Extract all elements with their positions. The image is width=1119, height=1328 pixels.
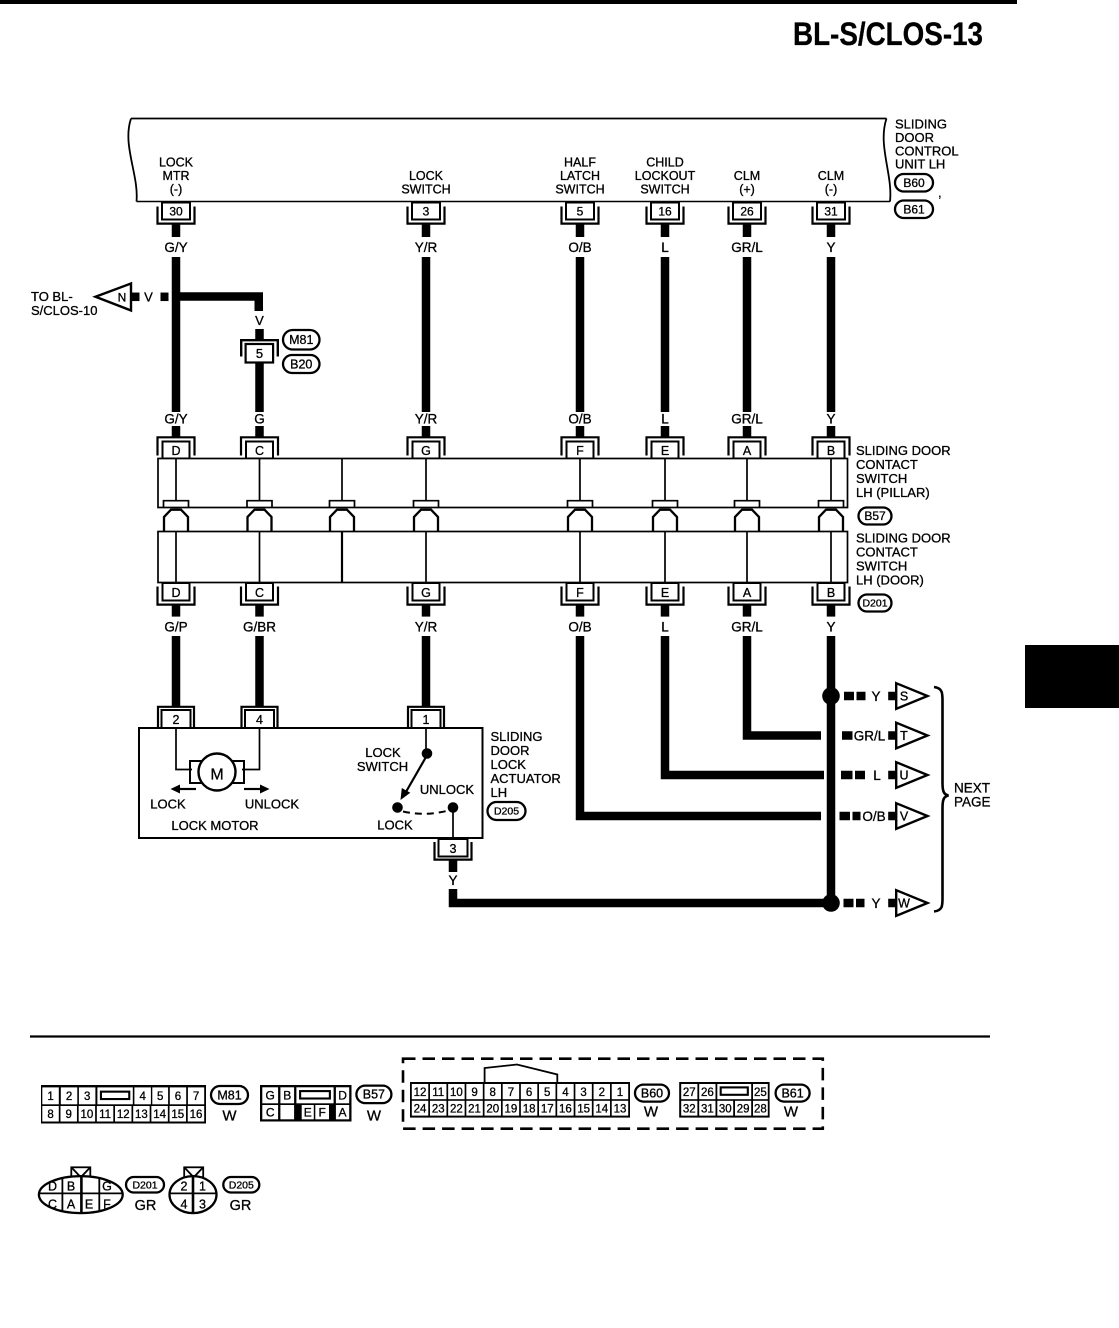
svg-text:9: 9 <box>66 1109 72 1121</box>
terminal 31 on control unit <box>813 203 850 238</box>
actuator label <box>491 729 561 800</box>
wire dashes and label Y (arrow S) <box>844 689 896 704</box>
connector B60 oval (pinout) <box>635 1085 669 1121</box>
terminal C on contact switch door side <box>241 583 278 617</box>
svg-text:M81: M81 <box>217 1088 241 1102</box>
pin label HALF LATCH SWITCH <box>555 156 604 197</box>
svg-text:PAGE: PAGE <box>954 795 991 810</box>
connector B61 oval <box>895 201 933 219</box>
wire label Y/R (row3) <box>415 620 438 635</box>
svg-text:8: 8 <box>47 1109 53 1121</box>
wire label Y (row3) <box>826 620 835 635</box>
svg-text:17: 17 <box>541 1103 554 1115</box>
svg-text:21: 21 <box>468 1103 481 1115</box>
connector B61 oval (pinout) <box>776 1085 810 1121</box>
svg-text:2: 2 <box>181 1180 188 1194</box>
wire label Y/R (lower) <box>415 412 438 427</box>
label UNLOCK (motor right) <box>245 797 300 812</box>
svg-text:SWITCH: SWITCH <box>640 183 689 197</box>
svg-text:19: 19 <box>505 1103 518 1115</box>
svg-text:15: 15 <box>577 1103 590 1115</box>
wire G/BR to actuator terminal 4 <box>255 636 264 707</box>
svg-text:2: 2 <box>599 1087 605 1099</box>
svg-text:N: N <box>118 290 127 304</box>
wire label O/B (row3) <box>568 620 591 635</box>
svg-text:,: , <box>938 185 942 200</box>
wire O/B vertical <box>576 257 585 412</box>
svg-text:T: T <box>900 729 908 743</box>
svg-text:LH (PILLAR): LH (PILLAR) <box>856 485 930 500</box>
svg-text:L: L <box>661 240 669 255</box>
svg-text:26: 26 <box>740 205 754 219</box>
arrow T to next page <box>896 723 927 749</box>
svg-text:Y: Y <box>826 412 835 427</box>
terminal D on contact switch pillar side <box>158 426 195 459</box>
connector B20 oval <box>283 355 320 373</box>
svg-text:G: G <box>102 1180 112 1194</box>
svg-text:V: V <box>255 313 264 328</box>
svg-text:(-): (-) <box>825 183 838 197</box>
svg-text:B: B <box>827 444 835 458</box>
wire label GR/L <box>731 240 763 255</box>
svg-text:3: 3 <box>199 1198 206 1212</box>
lock switch SW1 <box>392 728 458 838</box>
svg-text:27: 27 <box>683 1087 696 1099</box>
svg-text:UNLOCK: UNLOCK <box>245 797 300 812</box>
svg-text:11: 11 <box>432 1087 444 1099</box>
svg-text:O/B: O/B <box>568 412 591 427</box>
svg-text:LOCK MOTOR: LOCK MOTOR <box>171 818 258 833</box>
svg-text:1: 1 <box>423 713 430 727</box>
label LOCK (switch) <box>377 818 413 833</box>
svg-text:W: W <box>222 1108 237 1125</box>
svg-text:11: 11 <box>99 1109 111 1121</box>
wire label G/Y (lower) <box>164 412 187 427</box>
svg-text:Y: Y <box>448 873 457 888</box>
svg-text:W: W <box>784 1104 799 1121</box>
svg-text:4: 4 <box>139 1091 146 1103</box>
svg-text:SLIDING DOOR: SLIDING DOOR <box>856 443 951 458</box>
terminal E on contact switch door side <box>647 583 684 617</box>
svg-text:A: A <box>743 444 752 458</box>
svg-text:3: 3 <box>423 205 430 219</box>
svg-text:22: 22 <box>450 1103 463 1115</box>
svg-text:E: E <box>661 444 669 458</box>
arrow N to BL-S/CLOS-10 <box>31 284 131 319</box>
svg-text:B57: B57 <box>363 1088 385 1102</box>
svg-text:CONTACT: CONTACT <box>856 545 918 560</box>
svg-text:LOCK: LOCK <box>377 818 413 833</box>
svg-text:LATCH: LATCH <box>560 169 600 183</box>
terminal 26 on control unit <box>729 203 766 238</box>
wire GR/L vertical <box>743 257 752 412</box>
svg-text:GR: GR <box>135 1198 157 1214</box>
svg-text:F: F <box>576 444 584 458</box>
svg-text:6: 6 <box>526 1087 532 1099</box>
svg-text:5: 5 <box>577 205 584 219</box>
connector D205 oval <box>488 802 526 820</box>
junction dot (Y / arrow W) <box>822 894 840 912</box>
svg-text:Y: Y <box>826 620 835 635</box>
label LOCK (motor left) <box>150 797 186 812</box>
control unit label <box>895 117 959 172</box>
svg-text:G/Y: G/Y <box>164 240 187 255</box>
connector M81 oval <box>283 330 320 350</box>
wire label Y (lower) <box>826 412 835 427</box>
svg-text:1: 1 <box>47 1091 53 1103</box>
svg-text:V: V <box>900 810 909 824</box>
terminal 1 on actuator <box>408 707 444 728</box>
svg-text:16: 16 <box>190 1109 203 1121</box>
connector D205 pinout <box>169 1167 217 1213</box>
wire label G/P <box>164 620 187 635</box>
wire Y from actuator to junction W <box>453 889 827 903</box>
svg-text:10: 10 <box>450 1087 463 1099</box>
svg-text:15: 15 <box>171 1109 184 1121</box>
svg-text:B20: B20 <box>290 357 312 371</box>
contact pins between connectors <box>164 510 843 532</box>
lock motor M1 <box>176 728 260 791</box>
svg-text:23: 23 <box>432 1103 445 1115</box>
terminal F on contact switch door side <box>562 583 599 617</box>
svg-text:CHILD: CHILD <box>646 156 684 170</box>
page title BL-S/CLOS-13 <box>793 16 983 52</box>
contact switch pillar label <box>856 443 951 500</box>
svg-text:G: G <box>421 444 431 458</box>
wire label L <box>661 240 669 255</box>
svg-text:14: 14 <box>595 1103 608 1115</box>
svg-text:A: A <box>67 1198 76 1212</box>
terminal A on contact switch door side <box>729 583 766 617</box>
svg-text:A: A <box>743 586 752 600</box>
svg-text:7: 7 <box>508 1087 514 1099</box>
contact switch door label <box>856 531 951 588</box>
svg-text:5: 5 <box>157 1091 163 1103</box>
connector B61 pinout <box>679 1082 769 1118</box>
unlock direction arrow (right) <box>244 785 270 794</box>
terminal A on contact switch pillar side <box>729 426 766 459</box>
arrow V to next page <box>896 803 927 829</box>
svg-text:C: C <box>255 586 264 600</box>
svg-text:5: 5 <box>256 346 263 361</box>
svg-text:F: F <box>576 586 584 600</box>
wire label Y <box>826 240 835 255</box>
svg-text:D: D <box>48 1180 57 1194</box>
wire dashes and label Y (arrow W) <box>844 896 897 911</box>
svg-text:D: D <box>171 586 180 600</box>
svg-text:8: 8 <box>490 1087 496 1099</box>
terminal F on contact switch pillar side <box>562 426 599 459</box>
terminal E on contact switch pillar side <box>647 426 684 459</box>
svg-text:GR/L: GR/L <box>731 620 763 635</box>
terminal B on contact switch door side <box>813 583 850 617</box>
wire label G/BR <box>243 620 276 635</box>
terminal 3 on control unit <box>408 203 445 238</box>
terminal G on contact switch door side <box>408 583 445 617</box>
svg-text:Y/R: Y/R <box>415 412 438 427</box>
sliding door lock actuator LH box (D205) <box>139 728 483 838</box>
svg-text:Y/R: Y/R <box>415 240 438 255</box>
svg-text:LH (DOOR): LH (DOOR) <box>856 573 924 588</box>
terminal 5 on control unit <box>562 203 599 238</box>
svg-text:13: 13 <box>135 1109 148 1121</box>
pin label CLM (-) <box>818 169 844 197</box>
svg-text:L: L <box>661 620 669 635</box>
lock direction arrow (left) <box>171 785 197 794</box>
inline connector pin 5 (M81/B20) <box>241 340 278 362</box>
svg-text:SWITCH: SWITCH <box>856 559 907 574</box>
svg-text:LOCK: LOCK <box>159 156 194 170</box>
svg-text:G/Y: G/Y <box>164 412 187 427</box>
svg-text:B61: B61 <box>903 202 925 216</box>
next page brace <box>934 687 991 912</box>
label LOCK SWITCH <box>357 745 408 774</box>
wire Y vertical <box>827 257 836 412</box>
terminal 2 on actuator <box>158 707 194 728</box>
svg-text:D205: D205 <box>494 806 519 818</box>
svg-text:B61: B61 <box>781 1086 803 1100</box>
svg-text:SWITCH: SWITCH <box>401 183 450 197</box>
terminal 3 on actuator <box>435 839 472 872</box>
wire Y vertical to junctions <box>827 636 836 903</box>
svg-text:10: 10 <box>80 1109 93 1121</box>
wire dashes and label O/B (arrow V) <box>840 809 897 824</box>
terminal G on contact switch pillar side <box>408 426 445 459</box>
wire GR/L elbow to arrow T <box>747 636 821 736</box>
svg-text:24: 24 <box>414 1103 427 1115</box>
terminal 16 on control unit <box>647 203 684 238</box>
svg-text:O/B: O/B <box>568 240 591 255</box>
svg-text:U: U <box>899 769 908 783</box>
svg-text:M: M <box>210 767 223 784</box>
wire label GR/L (lower) <box>731 412 763 427</box>
svg-text:B: B <box>283 1089 291 1103</box>
sliding door contact switch LH pillar body (B57) <box>158 459 848 508</box>
svg-text:E: E <box>304 1106 312 1120</box>
dashed harness box <box>403 1059 823 1129</box>
arrow U to next page <box>896 762 927 788</box>
wire G vertical below connector 5 <box>255 363 264 413</box>
svg-text:32: 32 <box>683 1103 696 1115</box>
svg-text:C: C <box>255 444 264 458</box>
svg-text:ACTUATOR: ACTUATOR <box>491 771 561 786</box>
svg-text:LOCK: LOCK <box>150 797 186 812</box>
wire label G/Y <box>164 240 187 255</box>
terminal C on contact switch pillar side <box>241 426 278 459</box>
svg-text:31: 31 <box>824 205 838 219</box>
connector D205 oval (pinout) <box>223 1177 259 1214</box>
svg-text:D201: D201 <box>132 1179 157 1191</box>
svg-text:9: 9 <box>471 1087 477 1099</box>
svg-text:UNLOCK: UNLOCK <box>420 782 475 797</box>
wire Y/R to actuator terminal 1 <box>422 636 431 707</box>
svg-text:GR/L: GR/L <box>731 412 763 427</box>
svg-text:G/BR: G/BR <box>243 620 276 635</box>
svg-text:4: 4 <box>256 713 263 727</box>
svg-text:D201: D201 <box>862 598 887 610</box>
svg-text:SLIDING DOOR: SLIDING DOOR <box>856 531 951 546</box>
svg-text:SWITCH: SWITCH <box>357 759 408 774</box>
svg-text:LOCKOUT: LOCKOUT <box>635 169 696 183</box>
svg-text:4: 4 <box>181 1198 188 1212</box>
pin label LOCK MTR (-) <box>159 156 194 197</box>
svg-text:1: 1 <box>617 1087 623 1099</box>
svg-text:BL-S/CLOS-13: BL-S/CLOS-13 <box>793 16 983 52</box>
svg-text:B57: B57 <box>864 509 886 523</box>
svg-text:1: 1 <box>199 1180 206 1194</box>
svg-text:G: G <box>254 412 265 427</box>
svg-text:31: 31 <box>701 1103 714 1115</box>
svg-text:16: 16 <box>658 205 672 219</box>
svg-text:14: 14 <box>153 1109 166 1121</box>
svg-text:L: L <box>661 412 669 427</box>
sliding door control unit LH box (B60/B61) <box>128 119 890 202</box>
svg-text:SWITCH: SWITCH <box>856 471 907 486</box>
svg-text:4: 4 <box>562 1087 569 1099</box>
svg-text:O/B: O/B <box>862 809 885 824</box>
connector D201 oval <box>859 595 892 612</box>
svg-text:D205: D205 <box>229 1179 254 1191</box>
node V dashes <box>132 290 169 305</box>
svg-text:D: D <box>171 444 180 458</box>
svg-text:3: 3 <box>450 842 457 856</box>
wire label G <box>254 412 265 427</box>
svg-text:W: W <box>644 1104 659 1121</box>
svg-text:F: F <box>318 1106 325 1120</box>
svg-text:(-): (-) <box>170 183 183 197</box>
wire V branch (G/Y column to connector 5) <box>176 297 259 312</box>
label LOCK MOTOR <box>171 818 258 833</box>
wire O/B elbow to arrow V <box>580 636 821 816</box>
connector B57 pinout <box>260 1085 352 1122</box>
svg-text:2: 2 <box>66 1091 72 1103</box>
svg-text:Y: Y <box>871 689 880 704</box>
svg-text:30: 30 <box>169 205 183 219</box>
sliding door contact switch LH door body (D201) <box>158 532 848 583</box>
svg-text:Y/R: Y/R <box>415 620 438 635</box>
svg-text:3: 3 <box>580 1087 586 1099</box>
svg-text:B: B <box>827 586 835 600</box>
wire label Y/R <box>415 240 438 255</box>
svg-text:W: W <box>898 897 910 911</box>
svg-text:30: 30 <box>719 1103 732 1115</box>
connector M81 pinout <box>41 1085 206 1124</box>
connector B57 oval <box>859 508 892 525</box>
junction dot (Y / arrow S) <box>822 687 840 705</box>
svg-text:B60: B60 <box>641 1086 663 1100</box>
arrow W to next page <box>896 890 927 916</box>
connector M81 oval (pinout) <box>211 1086 248 1125</box>
connector B60 oval <box>895 174 942 200</box>
wire label O/B (lower) <box>568 412 591 427</box>
terminal B on contact switch pillar side <box>813 426 850 459</box>
svg-text:S/CLOS-10: S/CLOS-10 <box>31 303 97 318</box>
svg-text:E: E <box>85 1198 93 1212</box>
svg-text:16: 16 <box>559 1103 572 1115</box>
wire V stub to connector 5 <box>255 329 264 341</box>
wire L elbow to arrow U <box>665 636 824 775</box>
svg-text:GR/L: GR/L <box>854 728 886 743</box>
svg-text:12: 12 <box>117 1109 130 1121</box>
svg-text:NEXT: NEXT <box>954 781 990 796</box>
terminal D on contact switch door side <box>158 583 195 617</box>
svg-text:Y: Y <box>826 240 835 255</box>
wire label Y (actuator) <box>448 873 457 888</box>
svg-text:25: 25 <box>754 1087 767 1099</box>
svg-text:G: G <box>421 586 431 600</box>
svg-text:CLM: CLM <box>818 169 844 183</box>
wire label L (row3) <box>661 620 669 635</box>
pin label CLM (+) <box>734 169 760 197</box>
wire G/Y vertical <box>172 257 181 412</box>
svg-text:V: V <box>144 290 153 305</box>
terminal 4 on actuator <box>242 707 278 728</box>
svg-text:18: 18 <box>523 1103 536 1115</box>
svg-text:O/B: O/B <box>568 620 591 635</box>
svg-text:SWITCH: SWITCH <box>555 183 604 197</box>
svg-text:S: S <box>900 690 908 704</box>
svg-text:5: 5 <box>544 1087 550 1099</box>
wire label L (lower) <box>661 412 669 427</box>
connector B57 oval (pinout) <box>356 1086 391 1125</box>
svg-text:26: 26 <box>701 1087 714 1099</box>
svg-text:M81: M81 <box>289 333 313 347</box>
wire dash and label GR/L (arrow T) <box>842 728 896 743</box>
label UNLOCK (switch) <box>420 782 475 797</box>
svg-text:13: 13 <box>614 1103 627 1115</box>
svg-text:GR/L: GR/L <box>731 240 763 255</box>
wire label GR/L (row3) <box>731 620 763 635</box>
svg-text:G: G <box>266 1089 275 1103</box>
svg-text:C: C <box>48 1198 57 1212</box>
svg-text:LH: LH <box>491 785 508 800</box>
svg-text:TO BL-: TO BL- <box>31 289 73 304</box>
svg-text:20: 20 <box>486 1103 499 1115</box>
svg-text:Y: Y <box>871 896 880 911</box>
svg-text:3: 3 <box>84 1091 90 1103</box>
svg-text:UNIT LH: UNIT LH <box>895 157 945 172</box>
svg-text:12: 12 <box>414 1087 427 1099</box>
svg-text:LOCK: LOCK <box>409 169 444 183</box>
svg-text:6: 6 <box>175 1091 181 1103</box>
wire label O/B <box>568 240 591 255</box>
svg-text:E: E <box>661 586 669 600</box>
svg-text:MTR: MTR <box>162 169 189 183</box>
svg-text:L: L <box>873 768 881 783</box>
svg-text:2: 2 <box>173 713 180 727</box>
terminal 30 on control unit <box>158 203 195 238</box>
connector D201 oval (pinout) <box>126 1177 164 1214</box>
svg-text:B60: B60 <box>903 176 925 190</box>
horizontal separator line <box>30 1035 990 1037</box>
pin label CHILD LOCKOUT SWITCH <box>635 156 696 197</box>
svg-text:28: 28 <box>754 1103 767 1115</box>
connector D201 pinout <box>39 1167 123 1213</box>
svg-text:B: B <box>67 1180 75 1194</box>
wire label V <box>255 313 264 328</box>
wire dashes and label L (arrow U) <box>841 768 896 783</box>
svg-text:G/P: G/P <box>164 620 187 635</box>
svg-text:W: W <box>367 1108 382 1125</box>
svg-text:(+): (+) <box>739 183 755 197</box>
svg-text:LOCK: LOCK <box>365 745 401 760</box>
svg-text:29: 29 <box>737 1103 750 1115</box>
svg-text:C: C <box>266 1106 275 1120</box>
svg-text:A: A <box>339 1106 347 1120</box>
svg-text:7: 7 <box>193 1091 199 1103</box>
svg-text:CONTACT: CONTACT <box>856 457 918 472</box>
wire L vertical <box>661 257 670 412</box>
